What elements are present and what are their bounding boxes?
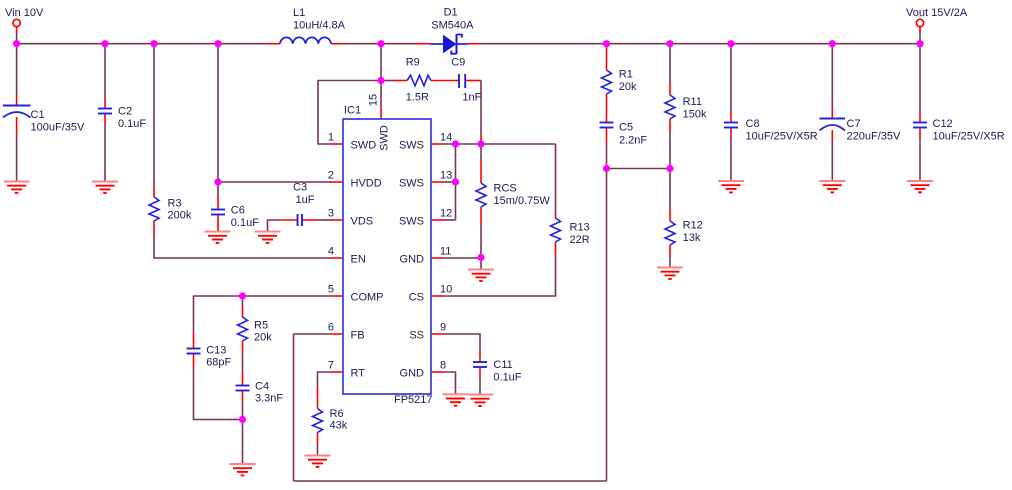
wire C1 branch (16, 44, 18, 97)
svg-text:9: 9 (440, 322, 446, 334)
wire R5 C4 mid (242, 353, 244, 372)
svg-text:0.1uF: 0.1uF (118, 118, 146, 130)
pin lead C6 top (217, 196, 219, 210)
svg-text:2.2nF: 2.2nF (619, 135, 647, 147)
wire SS net (444, 334, 481, 352)
pin lead pin4 stub (331, 257, 344, 259)
svg-text:Vout 15V/2A: Vout 15V/2A (906, 7, 968, 19)
ground C6 (205, 232, 231, 243)
pin lead RCS top (480, 161, 482, 183)
pin lead pin2 stub (331, 181, 344, 183)
svg-text:SS: SS (409, 330, 424, 342)
pin lead C5 bottom (606, 128, 608, 144)
node FB divider right (666, 165, 673, 172)
pin lead pin3 stub (331, 219, 344, 221)
wire C9 down to SWS (480, 81, 482, 135)
svg-text:L1: L1 (293, 7, 305, 19)
pin lead C1 top (16, 97, 18, 105)
wire C7 branch (831, 44, 833, 108)
svg-text:15: 15 (368, 94, 380, 106)
wire R5 top link (242, 296, 244, 306)
pin lead R5 bottom (242, 341, 244, 353)
wire C2 to ground (104, 124, 106, 182)
wire C8 branch (730, 44, 732, 112)
svg-text:2: 2 (328, 170, 334, 182)
svg-text:3: 3 (328, 208, 334, 220)
capacitor C5 (600, 123, 614, 128)
pin lead C7 bottom (831, 130, 833, 140)
svg-text:C2: C2 (118, 106, 132, 118)
pin lead C2 bottom (104, 114, 106, 125)
wire RT net (318, 372, 331, 387)
svg-text:FP5217: FP5217 (394, 394, 433, 406)
capacitor C4 (236, 386, 250, 391)
node Vout rail (916, 40, 923, 47)
wire R13 top (555, 144, 557, 214)
wire SWS bus (455, 144, 457, 220)
pin lead R12 top (669, 208, 671, 221)
pin lead C11 bottom (479, 367, 481, 378)
svg-text:R11: R11 (683, 96, 702, 108)
capacitor C8 (724, 123, 738, 128)
ground C3 (255, 232, 281, 243)
capacitor C1 (electrolytic) (3, 106, 31, 118)
svg-text:8: 8 (440, 360, 446, 372)
svg-text:R12: R12 (683, 220, 703, 232)
svg-text:C6: C6 (231, 205, 245, 217)
node SWD rail (377, 40, 384, 47)
svg-text:C13: C13 (206, 345, 226, 357)
pin lead C1 bottom (16, 117, 18, 134)
wire COMP net (194, 296, 331, 333)
ground C4 (230, 464, 256, 475)
node R3 rail (150, 40, 157, 47)
svg-text:200k: 200k (168, 210, 192, 222)
svg-text:C4: C4 (255, 381, 269, 393)
capacitor C13 (187, 349, 201, 354)
ground pin8 (443, 394, 469, 405)
pin lead R1 top (606, 46, 608, 70)
wire pin13 link (444, 181, 456, 183)
wire pin12 link (444, 219, 456, 221)
pin lead pin12 stub (431, 219, 444, 221)
wire R1 C5 to FB node (606, 143, 608, 169)
wire top rail left segment (17, 43, 267, 45)
pin lead C6 bottom (217, 215, 219, 232)
wire C4 ground stem (242, 420, 244, 465)
svg-text:13: 13 (440, 170, 452, 182)
pin lead R9 left (394, 80, 407, 82)
svg-text:6: 6 (328, 322, 334, 334)
wire R6 ground stem (317, 443, 319, 456)
pin lead C7 top (831, 108, 833, 119)
svg-text:D1: D1 (444, 7, 458, 19)
svg-text:11: 11 (440, 246, 451, 258)
ground C7 (819, 181, 845, 192)
wire pin11 ground stem (480, 258, 482, 270)
ground C1 (4, 182, 30, 193)
pin lead R3 bottom (153, 221, 155, 234)
pin lead Vin port (16, 27, 18, 32)
svg-text:SWD: SWD (351, 140, 377, 152)
svg-text:14: 14 (440, 132, 452, 144)
capacitor C6 (211, 210, 225, 215)
svg-text:R3: R3 (168, 198, 182, 210)
resistor R12 (665, 221, 675, 245)
svg-text:FB: FB (351, 330, 365, 342)
svg-text:1: 1 (328, 132, 334, 144)
capacitor C7 (electrolytic) (820, 119, 846, 131)
node C2 rail (101, 40, 108, 47)
node HVDD (214, 178, 221, 185)
resistor R13 (551, 218, 561, 242)
wire R12 ground stem (669, 256, 671, 268)
svg-text:100uF/35V: 100uF/35V (31, 122, 85, 134)
diode D1 (431, 34, 469, 54)
wire SWD to R9 (381, 80, 394, 82)
pin lead Vout port (919, 27, 921, 32)
capacitor C3 (298, 214, 303, 226)
pin lead C13 top (193, 333, 195, 349)
svg-text:22R: 22R (570, 234, 590, 246)
wire R12 top (669, 169, 671, 209)
ground R12 (657, 268, 683, 279)
pin lead R6 top (317, 387, 319, 409)
node FB divider left (603, 165, 610, 172)
wire pin14 SWS (444, 143, 556, 145)
svg-text:150k: 150k (683, 109, 707, 121)
svg-text:15m/0.75W: 15m/0.75W (494, 195, 551, 207)
svg-text:SWS: SWS (399, 216, 424, 228)
resistor R9 (407, 75, 431, 86)
node C6 rail (214, 40, 221, 47)
svg-text:SWD: SWD (379, 125, 391, 151)
pin lead C3 right (302, 219, 317, 221)
wire Vin stem (16, 30, 18, 44)
capacitor C11 (473, 362, 487, 367)
pin lead D1 right (468, 43, 480, 45)
node COMP R5 (239, 292, 246, 299)
pin lead L1 left (267, 43, 280, 45)
svg-text:43k: 43k (330, 420, 348, 432)
resistor R1 (602, 70, 612, 94)
pin lead pin13 stub (431, 181, 444, 183)
svg-text:C11: C11 (493, 359, 512, 371)
pin lead C8 bottom (730, 128, 732, 139)
pin lead C3 left (281, 219, 298, 221)
svg-text:EN: EN (351, 254, 366, 266)
pin lead C4 bottom (242, 391, 244, 402)
ground pin11 (468, 270, 494, 281)
svg-text:C7: C7 (847, 118, 861, 130)
pin lead C2 top (104, 99, 106, 109)
svg-text:IC1: IC1 (344, 105, 361, 117)
pin lead pin11 stub (431, 257, 444, 259)
wire R13 bottom to CS (444, 255, 556, 296)
resistor R11 (665, 95, 675, 119)
svg-text:20k: 20k (254, 332, 272, 344)
svg-text:C3: C3 (293, 182, 307, 194)
node R1 rail (603, 40, 610, 47)
node SWD snubber (377, 77, 384, 84)
wire FB feedback drop (606, 169, 608, 482)
svg-text:CS: CS (409, 292, 424, 304)
node R11 rail (666, 40, 673, 47)
svg-text:R1: R1 (619, 69, 633, 81)
wire top rail right segment (480, 43, 920, 45)
svg-text:R5: R5 (254, 320, 268, 332)
svg-text:SWS: SWS (399, 178, 424, 190)
wire C1 to ground (16, 132, 18, 182)
inductor L1 (280, 37, 331, 43)
svg-text:10: 10 (440, 284, 452, 296)
svg-text:R13: R13 (570, 222, 590, 234)
node C7 rail (829, 40, 836, 47)
svg-text:13k: 13k (683, 232, 701, 244)
svg-text:R6: R6 (330, 408, 344, 420)
resistor R6 (313, 409, 323, 433)
node SWS RCS (477, 140, 484, 147)
svg-text:68pF: 68pF (206, 357, 231, 369)
wire pin11 GND (444, 257, 482, 259)
pin lead R5 top (242, 306, 244, 317)
svg-text:R9: R9 (406, 57, 420, 69)
wire FB pin link (294, 333, 331, 335)
node C8 rail (727, 40, 734, 47)
svg-text:C8: C8 (746, 118, 760, 130)
pin lead R12 bottom (669, 245, 671, 256)
capacitor C9 (459, 74, 465, 88)
wire C3 to VDS (317, 219, 331, 221)
wire RCS bottom (480, 224, 482, 258)
svg-text:RT: RT (351, 368, 366, 380)
svg-text:12: 12 (440, 208, 452, 220)
pin lead D1 left (415, 43, 431, 45)
pin lead C11 top (479, 352, 481, 362)
wire SWD to pin1 (318, 81, 381, 145)
svg-text:C9: C9 (451, 57, 465, 69)
svg-text:220uF/35V: 220uF/35V (847, 131, 901, 143)
pin lead L1 right (331, 43, 344, 45)
pin lead C12 top (919, 112, 921, 123)
pin lead C9 drop (480, 134, 482, 144)
node Vin rail (13, 40, 20, 47)
wire C11 ground stem (479, 377, 481, 395)
node C4 bottom (239, 416, 246, 423)
node SWS bus top (452, 140, 459, 147)
pin lead C12 bottom (919, 128, 921, 139)
ground C8 (718, 181, 744, 192)
svg-text:1nF: 1nF (462, 92, 481, 104)
capacitor C2 (98, 109, 112, 114)
wire pin8 net (444, 372, 456, 394)
svg-text:COMP: COMP (351, 292, 384, 304)
wire C4 bottom link (242, 401, 244, 420)
wire R3 to EN corner (154, 234, 331, 258)
wire top rail mid segment (344, 43, 416, 45)
wire R11 branch (669, 44, 671, 82)
svg-text:3.3nF: 3.3nF (255, 393, 283, 405)
svg-text:20k: 20k (619, 81, 637, 93)
resistor R5 (238, 317, 248, 341)
node pin11 gnd (477, 254, 484, 261)
wire C12 branch (919, 44, 921, 112)
svg-text:1uF: 1uF (296, 194, 315, 206)
ground C11 (467, 395, 493, 406)
wire R3 branch (153, 44, 155, 184)
wire C7 ground (831, 140, 833, 181)
svg-text:SWS: SWS (399, 140, 424, 152)
svg-text:C5: C5 (619, 122, 633, 134)
svg-text:10uF/25V/X5R: 10uF/25V/X5R (746, 131, 818, 143)
pin lead R3 top (153, 184, 155, 197)
pin lead R11 top (669, 82, 671, 95)
pin lead R11 bottom (669, 119, 671, 132)
svg-text:10uH/4.8A: 10uH/4.8A (293, 19, 346, 31)
svg-text:0.1uF: 0.1uF (493, 372, 521, 384)
wire FB node cross (607, 168, 671, 170)
pin lead C13 bottom (193, 354, 195, 370)
pin lead R13 bottom (555, 242, 557, 255)
svg-text:4: 4 (328, 246, 334, 258)
pin lead R6 bottom (317, 433, 319, 444)
wire feedback riser (293, 334, 295, 481)
node SWS bus pin13 (452, 178, 459, 185)
pin lead pin9 stub (431, 333, 444, 335)
wire feedback bottom (294, 480, 607, 482)
pin lead pin8 stub (431, 371, 444, 373)
svg-text:1.5R: 1.5R (406, 92, 429, 104)
pin lead C8 top (730, 112, 732, 123)
pin lead C9 right (465, 80, 481, 82)
svg-text:GND: GND (400, 368, 425, 380)
wire C13 bottom link (194, 369, 243, 420)
svg-text:RCS: RCS (494, 183, 517, 195)
pin lead pin14 stub (431, 143, 444, 145)
svg-text:Vin 10V: Vin 10V (5, 7, 44, 19)
wire C2 branch (104, 44, 106, 99)
pin lead R1 to C5 (606, 94, 608, 123)
svg-text:C12: C12 (933, 118, 953, 130)
wire C12 ground (919, 138, 921, 181)
pin lead C4 top (242, 372, 244, 386)
pin lead R9 to C9 (431, 80, 459, 82)
resistor RCS (476, 183, 486, 207)
pin lead pin6 stub (331, 333, 344, 335)
wire R11 to FB node (669, 132, 671, 169)
svg-text:0.1uF: 0.1uF (231, 217, 259, 229)
capacitor C12 (913, 123, 927, 128)
svg-text:10uF/25V/X5R: 10uF/25V/X5R (933, 131, 1005, 143)
wire C3 ground link (268, 220, 282, 232)
pin lead pin7 stub (331, 371, 344, 373)
node Vout port (916, 19, 923, 26)
svg-text:SM540A: SM540A (431, 20, 474, 32)
pin lead pin15 stub (380, 107, 382, 119)
ground R6 (305, 456, 331, 467)
wire RCS top (480, 144, 482, 161)
ground C12 (907, 181, 933, 192)
wire C8 ground (730, 138, 732, 181)
ground C2 (92, 182, 118, 193)
wire C6 branch from rail (217, 44, 219, 196)
pin lead RCS bottom (480, 207, 482, 224)
svg-text:VDS: VDS (351, 216, 374, 228)
wire pin15 (380, 44, 382, 107)
op-amp U1 : IC1 FP5217 body (343, 119, 431, 394)
wire Vout stem (919, 30, 921, 44)
svg-text:7: 7 (328, 360, 334, 372)
pin lead R13 top (555, 214, 557, 218)
node Vin port (13, 19, 20, 26)
wire HVDD (218, 181, 331, 183)
pin lead pin1 stub (331, 143, 344, 145)
svg-text:C1: C1 (31, 109, 45, 121)
pin lead pin10 stub (431, 295, 444, 297)
svg-text:GND: GND (400, 254, 425, 266)
resistor R3 (149, 197, 159, 221)
svg-text:5: 5 (328, 284, 334, 296)
svg-text:HVDD: HVDD (351, 178, 382, 190)
pin lead pin5 stub (331, 295, 344, 297)
